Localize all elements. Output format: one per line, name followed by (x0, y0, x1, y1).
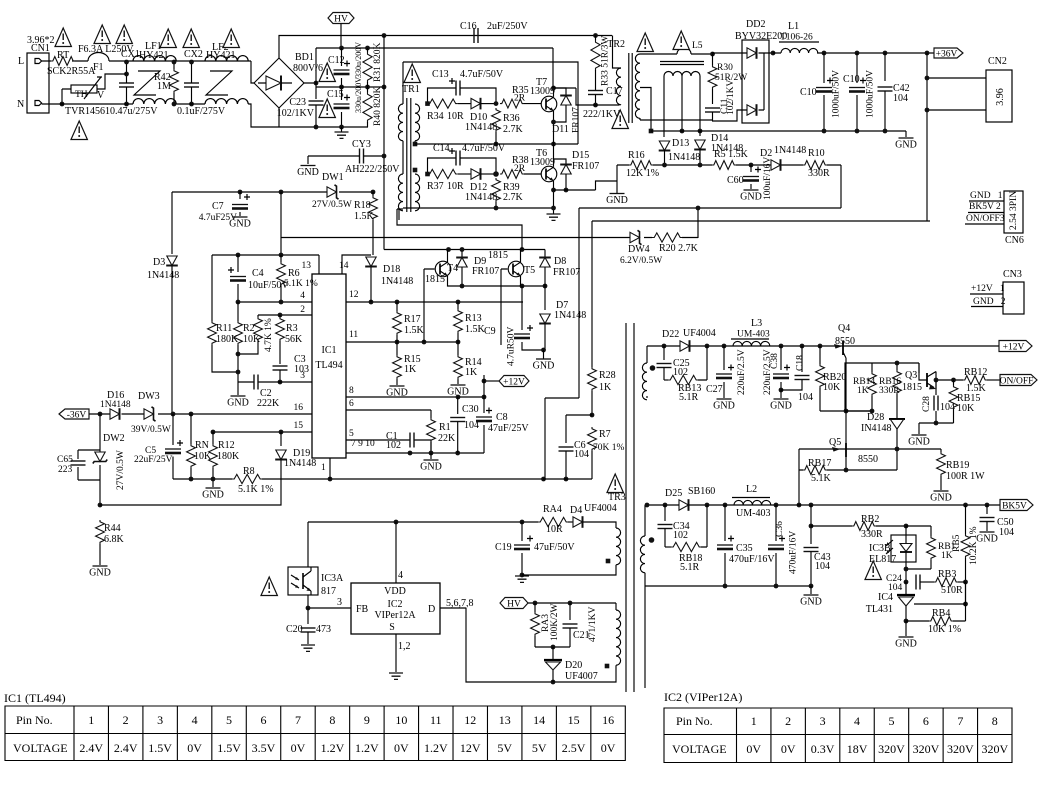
svg-text:C14: C14 (433, 143, 450, 154)
svg-text:11: 11 (349, 330, 358, 340)
capacitor C4 (237, 255, 239, 272)
svg-text:R31 820K: R31 820K (373, 43, 383, 82)
resistor R44 (96, 520, 105, 544)
svg-text:320V: 320V (878, 742, 905, 756)
svg-text:220uF/2.5V: 220uF/2.5V (737, 349, 747, 395)
svg-text:IC1: IC1 (322, 345, 337, 356)
warning IC3B (865, 561, 881, 580)
svg-text:UF4004: UF4004 (683, 328, 716, 339)
svg-text:4.7uR50V: 4.7uR50V (507, 327, 517, 366)
capacitor C21 (569, 603, 571, 620)
wire CN2 (927, 53, 986, 221)
capacitor CX2 (184, 83, 199, 87)
svg-text:1815: 1815 (425, 274, 445, 285)
svg-text:1N4148: 1N4148 (668, 152, 700, 163)
svg-text:5: 5 (226, 713, 232, 727)
svg-text:D2: D2 (760, 148, 772, 159)
svg-text:GND: GND (202, 490, 224, 501)
svg-text:2.5V: 2.5V (562, 741, 586, 755)
svg-text:R18: R18 (354, 200, 371, 211)
svg-text:5.1R: 5.1R (680, 562, 700, 573)
svg-text:2.4V: 2.4V (114, 741, 138, 755)
svg-text:ON/OFF: ON/OFF (1000, 376, 1034, 386)
svg-text:104: 104 (999, 527, 1014, 538)
svg-text:UF4004: UF4004 (584, 503, 617, 514)
ground main filter (341, 127, 343, 132)
svg-text:330R: 330R (808, 168, 830, 179)
svg-text:GND 1: GND 1 (970, 191, 1003, 201)
svg-text:RB12: RB12 (964, 367, 987, 378)
resistor R39 (492, 178, 501, 202)
resistor R12 (212, 432, 214, 444)
ground IC2 S (389, 673, 403, 679)
inductor LF1 (133, 56, 176, 61)
capacitor C35 (724, 505, 726, 541)
svg-text:TVR14561: TVR14561 (65, 106, 110, 117)
resistor R11 (211, 255, 213, 321)
svg-text:TL494: TL494 (315, 360, 342, 371)
svg-text:5.1K 1%: 5.1K 1% (238, 484, 274, 495)
svg-text:222K: 222K (257, 398, 280, 409)
rail VDD (308, 521, 538, 523)
svg-text:27V/0.5W: 27V/0.5W (116, 450, 126, 490)
svg-text:39V/0.5W: 39V/0.5W (131, 425, 171, 435)
svg-text:GND: GND (533, 361, 555, 372)
svg-text:R34: R34 (427, 111, 444, 122)
resistor RB12 (963, 376, 987, 385)
rail secondary gnd (651, 130, 906, 132)
capacitor C10a (823, 53, 825, 83)
svg-text:4: 4 (854, 714, 860, 728)
svg-text:IN4148: IN4148 (861, 423, 892, 434)
capacitor C11 (705, 108, 720, 112)
inductor L2 (734, 500, 771, 505)
svg-text:C18: C18 (796, 355, 806, 371)
svg-text:D13: D13 (672, 138, 689, 149)
resistor R36 (492, 108, 501, 132)
svg-text:7 9 10: 7 9 10 (351, 439, 375, 449)
svg-text:6: 6 (261, 713, 267, 727)
svg-text:102: 102 (386, 440, 401, 451)
svg-text:DD2: DD2 (746, 19, 765, 30)
svg-text:L: L (18, 56, 24, 67)
connector CN1 (27, 53, 49, 113)
svg-text:R10: R10 (808, 148, 825, 159)
svg-text:FR107: FR107 (572, 107, 582, 133)
svg-text:102/1KV: 102/1KV (726, 80, 736, 116)
svg-text:2.54 3PIN: 2.54 3PIN (1009, 191, 1019, 230)
resistor RA3 (534, 603, 536, 612)
svg-text:180K: 180K (217, 451, 240, 462)
svg-text:18V: 18V (847, 742, 868, 756)
svg-text:0.1uF/275V: 0.1uF/275V (177, 106, 226, 117)
wire T6 emitter (553, 181, 555, 214)
wire drive supply (280, 192, 282, 255)
warning IC3A (261, 577, 277, 596)
svg-text:15: 15 (294, 421, 304, 431)
svg-text:320V: 320V (981, 742, 1008, 756)
svg-text:R13: R13 (465, 313, 482, 324)
svg-text:VOLTAGE: VOLTAGE (13, 741, 68, 755)
svg-text:FR107: FR107 (572, 161, 599, 172)
rail HV top (279, 36, 612, 59)
resistor RB5 (965, 505, 967, 534)
svg-text:3.5V: 3.5V (252, 741, 276, 755)
ground D7 (541, 348, 546, 353)
svg-text:CN1: CN1 (31, 43, 50, 54)
pin1 stub (329, 458, 331, 479)
svg-text:1N4148: 1N4148 (100, 400, 131, 410)
wire emitter row (448, 276, 546, 286)
svg-text:10R: 10R (447, 111, 464, 122)
TR3 secondary winding (640, 536, 645, 573)
wire mid rail (316, 86, 384, 88)
TR2 sec core bars (660, 62, 704, 65)
svg-text:GND: GND (895, 639, 917, 650)
svg-text:3.96: 3.96 (995, 88, 1006, 106)
svg-text:R12: R12 (218, 440, 235, 451)
svg-text:CX2: CX2 (184, 49, 203, 60)
svg-text:C65: C65 (57, 455, 73, 465)
diode D10 (458, 103, 471, 105)
svg-text:8: 8 (349, 386, 354, 396)
svg-text:10.2K 1%: 10.2K 1% (969, 526, 979, 565)
svg-text:0V: 0V (746, 742, 761, 756)
svg-text:C60: C60 (727, 175, 744, 186)
diode D11 (554, 88, 567, 96)
diode D15 (554, 159, 567, 165)
svg-text:330u/200V: 330u/200V (354, 77, 363, 113)
svg-text:R6: R6 (288, 268, 300, 279)
svg-text:L5: L5 (692, 41, 703, 51)
svg-text:0V: 0V (601, 741, 616, 755)
svg-text:RA4: RA4 (543, 504, 562, 515)
ground C20 (301, 645, 315, 651)
svg-text:VDD: VDD (384, 586, 406, 597)
wire RA3 C21 join (535, 646, 570, 648)
net flag +12V left (499, 376, 529, 387)
resistor R33 (595, 36, 597, 41)
svg-text:R44: R44 (104, 523, 121, 534)
TR3 upper sec winding (646, 346, 648, 363)
svg-text:RB5: RB5 (952, 534, 962, 552)
capacitor C5 (172, 414, 174, 445)
rail BK5V (647, 504, 1000, 506)
svg-text:4.7K 1%: 4.7K 1% (264, 318, 274, 352)
svg-text:C16: C16 (460, 21, 477, 32)
resistor R16 (629, 161, 653, 170)
wire T7 collector (553, 88, 555, 97)
resistor RB1 (927, 536, 936, 560)
pin4 wire (395, 522, 397, 583)
svg-text:S: S (389, 622, 395, 633)
transistor T5 (508, 261, 524, 277)
wire TR2 sec top (640, 53, 677, 55)
svg-text:8550: 8550 (858, 454, 878, 465)
diode D13 (659, 141, 671, 151)
resistor RB13 (664, 379, 668, 381)
svg-text:CN2: CN2 (988, 56, 1007, 67)
svg-text:IC2 (VIPer12A): IC2 (VIPer12A) (664, 690, 742, 704)
ground sec rail (905, 131, 907, 137)
svg-text:10R: 10R (546, 524, 563, 535)
rail DW1 (172, 191, 373, 193)
resistor RB17 (798, 449, 800, 470)
svg-text:D18: D18 (383, 264, 400, 275)
svg-text:5,6,7,8: 5,6,7,8 (446, 598, 474, 609)
resistor RB20 (819, 346, 821, 364)
resistor R7 (588, 427, 597, 451)
capacitor C3 (273, 366, 288, 370)
svg-text:1.2V: 1.2V (321, 741, 345, 755)
svg-text:+12V 1: +12V 1 (971, 284, 1005, 294)
ground IC4 (905, 621, 907, 636)
resistor R13 (457, 302, 459, 309)
svg-text:1K: 1K (941, 551, 953, 561)
svg-text:22K: 22K (438, 433, 456, 444)
resistor R3 (279, 315, 281, 317)
svg-text:1.2V: 1.2V (424, 741, 448, 755)
pin6 line (346, 409, 431, 411)
svg-text:2uF/250V: 2uF/250V (487, 21, 528, 32)
capacitor C23 (309, 101, 324, 105)
svg-text:0V: 0V (187, 741, 202, 755)
svg-text:GND: GND (800, 597, 822, 608)
transistor T7 (524, 103, 541, 105)
pin14 wire (342, 255, 371, 274)
svg-text:RN: RN (195, 440, 209, 451)
capacitor C60 (750, 165, 752, 172)
svg-text:5.1K 1%: 5.1K 1% (284, 279, 318, 289)
net flag HV (328, 13, 354, 24)
diode D16 (110, 408, 120, 420)
capacitor C65 / zener DW2 pair (78, 414, 100, 505)
resistor R28 (591, 365, 593, 367)
capacitor C1 (410, 433, 414, 448)
svg-text:GND: GND (770, 401, 792, 412)
resistor R10 (803, 161, 827, 170)
rail R8 (173, 478, 543, 480)
svg-text:UF4007: UF4007 (565, 671, 598, 682)
svg-text:+36V: +36V (936, 49, 958, 59)
svg-text:1815: 1815 (488, 250, 508, 261)
wire T5 emitter (520, 276, 522, 286)
resistor RN (190, 414, 192, 444)
wire T6 collector (553, 159, 555, 167)
svg-text:C19: C19 (495, 542, 512, 553)
wire T5 collector (520, 250, 522, 263)
node bridge+ (314, 81, 319, 86)
svg-text:470uF/16V: 470uF/16V (789, 531, 799, 574)
svg-text:RB2: RB2 (861, 514, 879, 525)
svg-text:14: 14 (339, 261, 349, 271)
optocoupler IC3A (288, 567, 318, 595)
ground C38 (780, 390, 782, 398)
net flag +12V right (853, 345, 999, 347)
wire Q3 collector (936, 379, 963, 381)
svg-text:T4: T4 (447, 263, 458, 274)
transistor T4 (435, 261, 451, 277)
pin16 line (89, 413, 312, 415)
svg-text:12K 1%: 12K 1% (626, 168, 659, 179)
svg-text:Q5: Q5 (829, 437, 841, 448)
capacitor C24 (916, 575, 920, 590)
diode D3 (171, 192, 173, 254)
capacitor C30 (457, 397, 459, 414)
svg-text:220uF/2.5V: 220uF/2.5V (763, 349, 773, 395)
svg-text:1,2: 1,2 (398, 641, 411, 652)
svg-text:BK5V 2: BK5V 2 (969, 202, 1001, 212)
diode D12 (458, 173, 471, 175)
zener DW4 (630, 230, 642, 244)
capacitor C18 (801, 346, 803, 372)
capacitor C14 (428, 158, 457, 174)
svg-text:70K 1%: 70K 1% (593, 443, 624, 453)
svg-text:IC3A: IC3A (321, 573, 344, 584)
warning TR3 (607, 474, 623, 493)
capacitor C15 (334, 104, 350, 108)
svg-text:223: 223 (58, 465, 73, 475)
rail 479 right (543, 478, 592, 480)
resistor RB2 (811, 525, 852, 527)
svg-text:1.5K: 1.5K (404, 325, 425, 336)
ground CY3 (301, 165, 316, 167)
svg-text:Q4: Q4 (838, 323, 850, 334)
wire R16 gnd (616, 165, 618, 194)
svg-text:D4: D4 (570, 505, 582, 516)
net flag +36V (934, 48, 963, 58)
svg-text:510R: 510R (941, 585, 963, 596)
svg-text:DW2: DW2 (103, 433, 125, 444)
capacitor C9 (521, 286, 523, 330)
TR3 primary upper winding (616, 528, 621, 565)
wire T4 collector (447, 250, 449, 263)
net flag HV2 (500, 598, 528, 609)
transformer TR1 (404, 64, 420, 83)
net flag ON/OFF (1000, 375, 1037, 386)
pin12 line (346, 301, 523, 303)
ground C43 (810, 586, 812, 594)
wire T7 emitter (553, 111, 555, 163)
svg-text:VIPer12A: VIPer12A (374, 610, 416, 621)
svg-text:Pin No.: Pin No. (16, 713, 53, 727)
zener DW1 (327, 185, 339, 199)
pin FB wire (308, 607, 351, 609)
svg-text:10K 1%: 10K 1% (928, 624, 961, 635)
diode D28 (889, 418, 905, 420)
svg-text:1K: 1K (404, 364, 417, 375)
svg-text:IC1 (TL494): IC1 (TL494) (4, 691, 66, 705)
svg-text:GND: GND (297, 167, 319, 178)
svg-text:6.8K: 6.8K (104, 534, 125, 545)
svg-text:R5 1.5K: R5 1.5K (714, 149, 749, 160)
svg-text:102: 102 (673, 530, 688, 541)
svg-text:100R 1W: 100R 1W (946, 471, 985, 482)
connector CN3 (1003, 282, 1024, 314)
resistor R17 (396, 302, 398, 311)
resistor RT (51, 57, 75, 66)
resistor RA4 (538, 517, 568, 526)
node DD2 out (771, 51, 776, 56)
connector CN6 (1004, 191, 1023, 233)
loop feedback (579, 165, 841, 398)
inductor L1 (781, 48, 818, 53)
connector CN2 (986, 70, 1012, 122)
fuse F1 (88, 53, 109, 62)
warning triangles input (55, 28, 71, 47)
capacitor C25 (663, 346, 665, 360)
svg-text:1N4148: 1N4148 (284, 458, 316, 469)
pin11 line (346, 341, 458, 343)
svg-text:330R: 330R (879, 386, 900, 396)
svg-text:GND: GND (420, 462, 442, 473)
resistor R6 (280, 255, 282, 262)
svg-text:1.5V: 1.5V (148, 741, 172, 755)
capacitor C16 (474, 28, 478, 43)
svg-text:1M: 1M (157, 81, 171, 92)
pin3 line (238, 381, 312, 383)
svg-text:2: 2 (785, 714, 791, 728)
svg-text:D3: D3 (153, 257, 165, 268)
svg-text:+12V: +12V (503, 378, 525, 388)
svg-text:2.7K: 2.7K (503, 124, 524, 135)
transformer TR2 right winding (639, 118, 641, 120)
TR3 primary lower winding (612, 603, 616, 610)
svg-text:L3: L3 (751, 318, 762, 329)
svg-text:2.4V: 2.4V (79, 741, 103, 755)
net flag -36V (59, 409, 89, 419)
zener DW3 (144, 407, 156, 421)
svg-text:GND: GND (930, 493, 952, 504)
svg-text:C13: C13 (432, 69, 449, 80)
resistor R37 (425, 172, 430, 177)
TR1 left winding (402, 62, 404, 104)
svg-text:D8: D8 (554, 256, 566, 267)
resistor R30 (710, 52, 715, 57)
wire RB17 col (798, 470, 800, 505)
transformer TR2 core (629, 53, 632, 123)
svg-text:D28: D28 (867, 412, 884, 423)
resistor RB3 (920, 581, 934, 583)
svg-text:C10: C10 (843, 74, 860, 85)
svg-text:473: 473 (316, 624, 331, 635)
svg-text:5: 5 (349, 429, 354, 439)
svg-text:1.5K: 1.5K (354, 211, 375, 222)
svg-text:R3: R3 (286, 323, 298, 334)
svg-text:1K: 1K (599, 382, 612, 393)
svg-text:11: 11 (430, 713, 442, 727)
svg-text:SCK2R55A: SCK2R55A (47, 66, 96, 77)
svg-text:R17: R17 (404, 314, 421, 325)
svg-text:1: 1 (751, 714, 757, 728)
svg-text:C28: C28 (922, 396, 932, 412)
column HV right (383, 36, 385, 250)
svg-text:C20: C20 (286, 624, 303, 635)
wire Q4 out (820, 410, 872, 412)
svg-text:1N4148: 1N4148 (381, 276, 413, 287)
svg-text:2: 2 (123, 713, 129, 727)
varistor TVR14561 (71, 85, 97, 93)
svg-text:12: 12 (349, 290, 359, 300)
IC4 TL431 (897, 594, 915, 596)
wire HV stem (340, 24, 342, 49)
svg-text:9: 9 (364, 713, 370, 727)
inductor LF2 (205, 56, 248, 61)
svg-text:14: 14 (533, 713, 545, 727)
svg-text:0V: 0V (291, 741, 306, 755)
svg-text:Q3: Q3 (905, 370, 917, 381)
isolation barrier / TR3 core (626, 323, 634, 692)
